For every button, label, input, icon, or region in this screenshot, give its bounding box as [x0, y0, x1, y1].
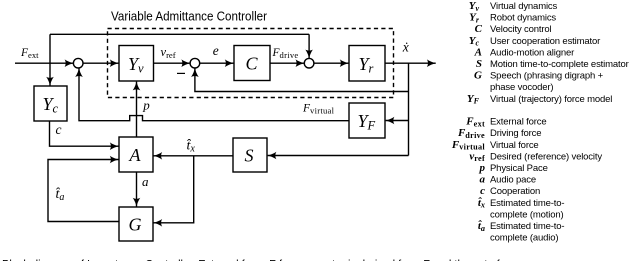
- svg-text:Fvirtual: Fvirtual: [451, 139, 486, 152]
- svg-text:S: S: [245, 146, 254, 166]
- block A (audio-motion aligner): [119, 137, 153, 172]
- svg-text:Virtual (trajectory) force mod: Virtual (trajectory) force model: [490, 94, 612, 105]
- svg-text:a: a: [142, 174, 149, 189]
- svg-text:t̂x: t̂x: [478, 197, 485, 210]
- block Y_c: [34, 86, 67, 121]
- summing junction 3: [304, 58, 314, 68]
- wire sum2 to C: [199, 62, 233, 64]
- legend group 1 symbols: [467, 0, 483, 106]
- svg-text:Robot dynamics: Robot dynamics: [490, 13, 556, 24]
- svg-text:t̂a: t̂a: [56, 187, 65, 203]
- svg-text:phase vocoder): phase vocoder): [490, 82, 553, 93]
- svg-text:G: G: [474, 70, 482, 82]
- summing junction 1: [73, 58, 83, 68]
- wire F_virtual from Y_F to sum1 (with hop over p line): [79, 68, 349, 121]
- wire feedforward top: [50, 33, 309, 35]
- svg-text:C: C: [246, 54, 259, 74]
- svg-text:Fdrive: Fdrive: [457, 127, 485, 140]
- svg-text:Driving force: Driving force: [490, 128, 541, 139]
- svg-text:G: G: [129, 215, 142, 235]
- svg-text:complete (audio): complete (audio): [490, 233, 558, 244]
- wire xdot feedback branch down: [408, 63, 410, 155]
- svg-text:Virtual dynamics: Virtual dynamics: [490, 1, 558, 12]
- block G (speech generator): [119, 207, 153, 241]
- wire Y_r output xdot: [385, 62, 436, 64]
- wire t_z from S to A: [153, 155, 233, 157]
- svg-text:Audio-motion aligner: Audio-motion aligner: [490, 47, 574, 58]
- svg-text:A: A: [129, 145, 142, 165]
- svg-text:Fdrive: Fdrive: [272, 47, 299, 60]
- svg-text:External force: External force: [490, 117, 547, 128]
- svg-text:YF: YF: [467, 93, 480, 106]
- svg-text:Estimated time-to-: Estimated time-to-: [490, 221, 564, 232]
- wire F_ext input: [15, 62, 73, 64]
- svg-text:Variable Admittance Controller: Variable Admittance Controller: [111, 9, 268, 24]
- legend group 2 descriptions: [490, 117, 602, 244]
- svg-text:complete (motion): complete (motion): [490, 209, 563, 220]
- wire feedforward drop into sum junction 3: [308, 34, 310, 58]
- block S (time-to-complete estimator): [233, 138, 267, 172]
- svg-text:Audio pace: Audio pace: [490, 175, 536, 186]
- wire C to sum junction 3: [270, 62, 304, 64]
- svg-text:Fext: Fext: [465, 116, 485, 129]
- wire branch down to Y_c: [49, 63, 51, 85]
- block Y_F: [349, 103, 385, 138]
- svg-text:Velocity control: Velocity control: [490, 24, 552, 35]
- wire Y_v to sum junction 2: [154, 62, 191, 64]
- svg-text:ẋ: ẋ: [402, 40, 409, 55]
- legend group 1 descriptions: [490, 1, 629, 105]
- svg-text:Fext: Fext: [20, 47, 39, 60]
- svg-text:Virtual force: Virtual force: [490, 140, 539, 151]
- legend group 2 symbols: [451, 116, 486, 233]
- svg-text:Motion time-to-complete estima: Motion time-to-complete estimator: [490, 59, 629, 70]
- svg-text:t̂a: t̂a: [478, 220, 485, 233]
- summing junction 2 (error): [190, 58, 200, 68]
- caption fragment (cut off at bottom): [2, 259, 501, 261]
- wire p from A to Y_v: [136, 82, 138, 137]
- label minus sign: [177, 72, 185, 74]
- wire a from A to G: [136, 172, 138, 207]
- svg-text:Fvirtual: Fvirtual: [302, 102, 335, 115]
- block Y_r: [349, 46, 385, 82]
- block Y_v: [119, 46, 154, 82]
- svg-text:p: p: [142, 98, 150, 113]
- wire sum1 to Y_v: [83, 62, 119, 64]
- dashed boundary of Variable Admittance Controller: [108, 29, 394, 98]
- node branch at F_ext (junction): [49, 34, 51, 63]
- svg-text:Desired (reference) velocity: Desired (reference) velocity: [490, 151, 602, 162]
- svg-text:c: c: [480, 185, 485, 197]
- svg-text:t̂x: t̂x: [187, 139, 196, 155]
- svg-text:a: a: [480, 174, 486, 186]
- svg-text:A: A: [474, 46, 482, 58]
- svg-text:C: C: [475, 23, 483, 35]
- wire velocity error feedback to sum2: [195, 68, 409, 91]
- svg-text:Cooperation: Cooperation: [490, 186, 540, 197]
- svg-text:Physical Pace: Physical Pace: [490, 163, 548, 174]
- wire xdot to S: [268, 155, 409, 157]
- block C (velocity control): [234, 46, 270, 81]
- svg-text:Estimated time-to-: Estimated time-to-: [490, 198, 564, 209]
- svg-text:vref: vref: [161, 45, 176, 60]
- wire xdot to Y_F: [386, 120, 409, 122]
- svg-text:User cooperation estimator: User cooperation estimator: [490, 36, 600, 47]
- wire sum3 to Y_r: [314, 62, 349, 64]
- svg-text:e: e: [213, 43, 219, 58]
- svg-text:p: p: [479, 162, 486, 174]
- svg-text:c: c: [56, 122, 62, 137]
- wire t_z branch to G: [153, 156, 193, 223]
- wire t_a hat feedback from G to A: [48, 160, 119, 222]
- svg-text:S: S: [476, 58, 482, 70]
- svg-text:Speech (phrasing digraph +: Speech (phrasing digraph +: [490, 71, 604, 82]
- wire c from Y_c to A: [50, 121, 119, 146]
